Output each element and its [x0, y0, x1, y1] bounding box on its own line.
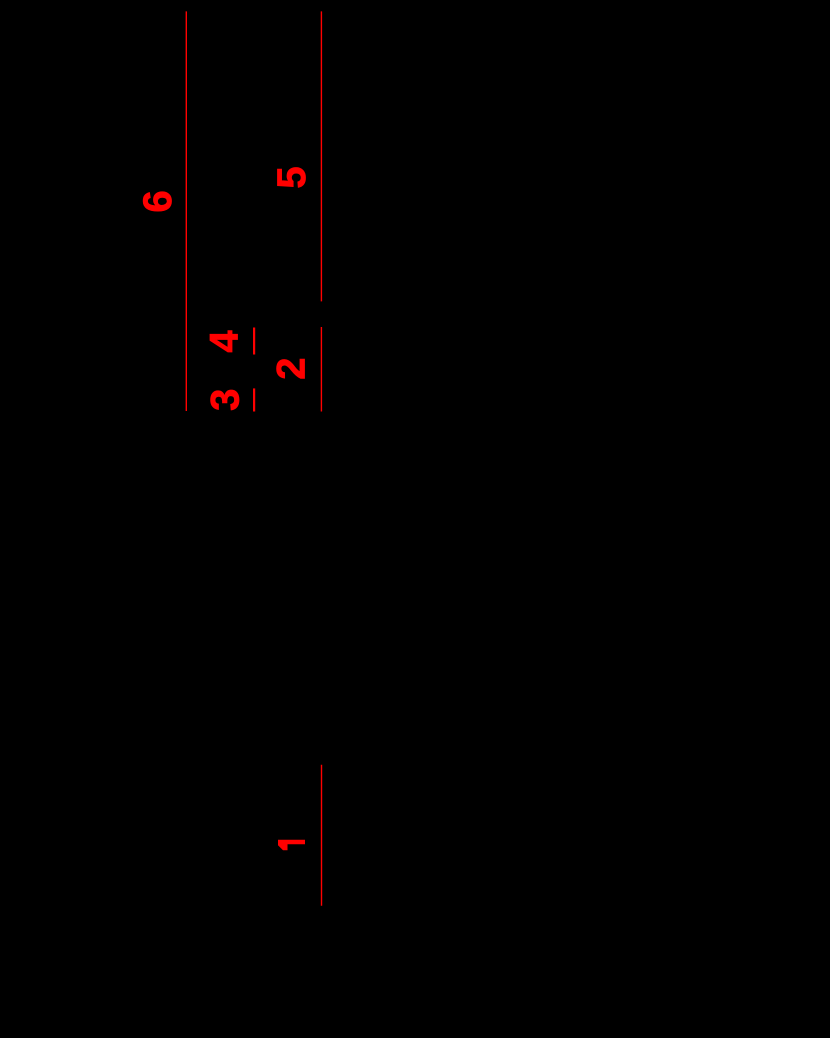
svg-text:2: 2 [270, 357, 314, 379]
wire leader line for 6 [185, 11, 187, 411]
wire leader line for 1 [321, 765, 323, 906]
svg-text:3: 3 [203, 389, 247, 411]
label 1 [278, 840, 305, 851]
wire leader dash for 3 [253, 388, 255, 411]
svg-text:5: 5 [270, 166, 314, 188]
wire leader dash for 4 [253, 328, 255, 355]
svg-text:4: 4 [203, 330, 247, 353]
svg-text:6: 6 [136, 190, 180, 212]
wire leader line for 5 [320, 11, 322, 301]
wire leader line for 2 [320, 327, 322, 412]
